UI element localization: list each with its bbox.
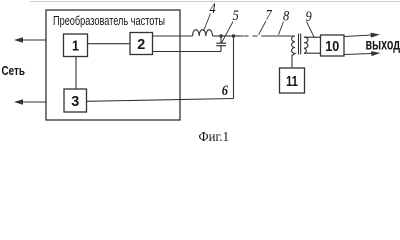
svg-text:10: 10 <box>325 38 339 55</box>
wire secondary top to block 10 <box>304 36 321 38</box>
capacitor 5 <box>216 36 226 52</box>
block 3 <box>64 89 87 112</box>
transformer 8 core <box>299 34 301 55</box>
svg-text:9: 9 <box>306 9 313 25</box>
svg-text:Фиг.1: Фиг.1 <box>199 130 230 143</box>
block 11 <box>280 68 305 93</box>
feedback wire 6 horizontal to block3 <box>87 99 234 102</box>
wire block1 to block2 <box>88 43 131 45</box>
leader line 5 <box>222 22 234 44</box>
svg-text:6: 6 <box>222 83 229 99</box>
svg-text:Сеть: Сеть <box>2 63 26 78</box>
svg-text:4: 4 <box>210 1 217 17</box>
wire inductor to node A <box>213 35 222 37</box>
svg-text:3: 3 <box>71 93 79 110</box>
wire block2 output top <box>153 35 193 37</box>
wire primary to block 11 <box>291 55 293 68</box>
wire mains bottom with arrow <box>14 99 46 105</box>
wire secondary bottom to block 10 <box>304 52 321 54</box>
wire to transformer primary <box>262 35 295 37</box>
frequency converter box <box>46 10 180 120</box>
svg-text:8: 8 <box>283 9 290 25</box>
transformer 8 secondary winding <box>304 37 308 53</box>
wire node A to node B <box>221 35 234 37</box>
block 10 <box>321 35 345 56</box>
node B junction <box>232 34 235 37</box>
svg-text:Преобразователь частоты: Преобразователь частоты <box>53 13 165 28</box>
svg-text:5: 5 <box>233 8 240 24</box>
block 2 <box>130 33 153 55</box>
wire output bottom with arrow <box>344 51 381 56</box>
inductor 4 <box>193 30 213 36</box>
wire output top with arrow <box>344 33 380 38</box>
wire mains top with arrow <box>14 37 46 43</box>
leader line 8 <box>279 22 284 35</box>
feedback wire 6 vertical <box>233 36 235 99</box>
wire dashed section 7 <box>244 35 263 37</box>
leader line 7 <box>259 21 267 35</box>
svg-text:11: 11 <box>286 73 298 90</box>
wire node B to dashes <box>234 35 244 37</box>
wire block1 to block3 <box>75 57 77 90</box>
svg-text:1: 1 <box>72 38 79 55</box>
leader line 4 <box>204 14 211 32</box>
leader line 9 <box>307 22 315 39</box>
node A junction <box>219 34 222 37</box>
transformer 8 primary winding <box>292 36 295 56</box>
wire capacitor return to block2 <box>153 51 222 53</box>
block 1 <box>64 34 88 57</box>
svg-text:выход: выход <box>366 37 400 54</box>
svg-text:2: 2 <box>137 36 145 53</box>
